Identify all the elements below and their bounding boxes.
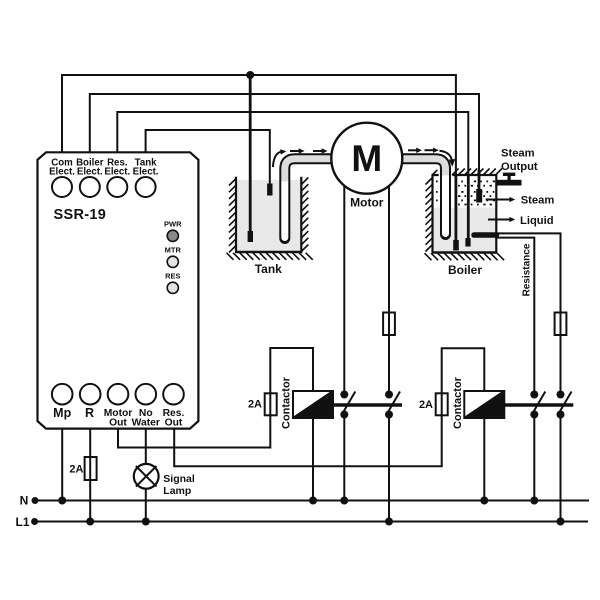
boiler bottom hatching [425, 253, 505, 260]
svg-text:Liquid: Liquid [520, 215, 554, 227]
svg-text:Steam: Steam [521, 194, 555, 206]
electrode tip boiler steam [476, 189, 482, 203]
contactor K2 actuator bar [504, 403, 573, 407]
contactor K1 coil [293, 391, 333, 418]
liquid pointer arrow [488, 219, 510, 221]
wire boiler steam electrode (thick) [478, 170, 481, 190]
resistance lead upper [497, 233, 561, 394]
flow arrow 4 [425, 149, 435, 151]
terminal Res. Out [163, 384, 184, 405]
terminal Boiler Elect. [80, 177, 100, 197]
wire Res. Out to contactor K2 coil fuse [174, 348, 484, 466]
fuse F2 2A (K1 coil) [265, 393, 277, 415]
boiler bottom [432, 251, 498, 254]
fuse F3 (motor phase B) [383, 313, 395, 336]
svg-text:SSR-19: SSR-19 [54, 207, 107, 223]
wire boiler res electrode (thick) [467, 176, 470, 238]
svg-text:Steam: Steam [501, 148, 535, 160]
N rail [32, 500, 589, 502]
wire R to L1 through fuse [89, 428, 91, 522]
tank right wall [300, 177, 302, 252]
tank liquid fill [237, 180, 301, 252]
wire Mp to N [61, 428, 63, 501]
contactor K2 coil return to N [483, 418, 485, 501]
tank right wall hatching [301, 178, 308, 252]
pipe bore inside tank [281, 181, 288, 238]
svg-text:Signal: Signal [163, 473, 195, 485]
boiler left wall hatching [426, 178, 433, 252]
junction dots on L1 [86, 518, 94, 526]
wire motor phase A (to contactor1 contact) [343, 184, 345, 395]
tank bottom hatching [227, 253, 313, 260]
svg-text:Contactor: Contactor [281, 376, 293, 429]
svg-text:Motor: Motor [350, 196, 384, 210]
junction dots on N [58, 497, 66, 505]
svg-text:Elect.: Elect. [133, 167, 159, 178]
svg-text:Out: Out [165, 418, 183, 429]
wire Motor Out to contactor K1 coil fuse [118, 348, 313, 448]
contact K1b [385, 391, 400, 419]
flow arrow curved at boiler elbow [440, 151, 452, 160]
boiler left wall [431, 175, 433, 253]
wire com electrode net (top wire 1) [62, 75, 456, 241]
wire tank common electrode drop [249, 75, 252, 232]
boiler liquid fill [434, 208, 497, 253]
svg-text:R: R [85, 406, 94, 420]
contactor K1 coil return to N [312, 418, 314, 501]
contact K2a [530, 391, 545, 419]
svg-text:MTR: MTR [165, 246, 182, 255]
tank left wall hatching [229, 179, 236, 253]
boiler right wall [495, 175, 497, 253]
tank left wall [235, 177, 237, 252]
wire contact K1b to L1 [388, 415, 390, 522]
contactor K2 coil [464, 391, 504, 418]
pipe bore inside boiler [442, 175, 449, 234]
flow arrow 3 [408, 149, 417, 151]
L1 rail [32, 521, 588, 523]
tank bottom [235, 251, 302, 254]
terminal No Water [136, 384, 157, 405]
svg-text:Output: Output [501, 161, 538, 173]
svg-text:Elect.: Elect. [77, 167, 103, 178]
wire No Water to signal lamp to L1 [145, 428, 147, 522]
motor circle M1 [331, 123, 402, 194]
svg-text:Boiler: Boiler [448, 263, 482, 277]
steam output valve pipe [497, 180, 522, 186]
svg-text:Elect.: Elect. [49, 167, 75, 178]
electrode tip boiler res [465, 238, 470, 247]
SSR-19 controller box U1 [38, 152, 199, 428]
flow arrow curved at tank elbow [273, 152, 281, 167]
svg-text:N: N [20, 494, 29, 508]
svg-text:Elect.: Elect. [104, 167, 130, 178]
steam pointer arrow [486, 199, 510, 201]
contact K1a [340, 391, 355, 419]
wire boiler common electrode (thick) [454, 176, 457, 241]
wire contact K2a to N [533, 415, 535, 501]
svg-text:Mp: Mp [53, 406, 71, 420]
svg-text:Contactor: Contactor [452, 376, 464, 429]
flow arrow 1 [290, 150, 300, 152]
svg-text:Lamp: Lamp [163, 485, 191, 497]
electrode tip boiler common [453, 240, 459, 251]
svg-text:RES: RES [165, 272, 180, 281]
steam output valve handle [503, 173, 515, 176]
flow arrow 2 [313, 150, 323, 152]
wire contact K2b to L1 [560, 415, 562, 522]
resistance heating element bar [474, 232, 497, 238]
wire res elect net (top wire 3) [117, 112, 468, 238]
pipe casing (tank to motor to boiler) [285, 159, 446, 239]
contact K2b [557, 391, 572, 419]
svg-text:Tank: Tank [255, 262, 282, 276]
electrode tip tank common [248, 231, 253, 242]
boiler top edge (gap at pipe) [432, 174, 498, 176]
wire contact K1a to N [343, 415, 345, 501]
contactor K1 actuator bar [333, 403, 402, 407]
fuse F4 2A (K2 coil) [436, 393, 448, 415]
resistance lead lower [497, 238, 535, 395]
terminal Res. Elect. [107, 177, 127, 197]
wire motor phase B (to fuse and contact) [388, 184, 390, 395]
svg-text:Resistance: Resistance [521, 243, 532, 296]
svg-text:L1: L1 [15, 515, 29, 529]
steam output valve stem [508, 175, 511, 181]
fuse F5 (resistance line) [555, 313, 567, 336]
svg-text:PWR: PWR [164, 220, 182, 229]
fuse F1 2A (R line) [85, 457, 97, 480]
wire boiler elect net (top wire 2) [90, 94, 479, 190]
terminal Tank Elect. [136, 177, 156, 197]
electrode tip tank level [267, 184, 272, 196]
wire tank elect net (top wire 4) [146, 130, 270, 184]
pipe bore above vessels (gray) [285, 159, 446, 182]
terminal R [80, 384, 101, 405]
boiler top hatching [433, 169, 502, 176]
terminal Com Elect. [52, 177, 72, 197]
svg-text:M: M [351, 138, 382, 179]
svg-text:2A: 2A [248, 399, 262, 411]
signal lamp LP1 [134, 464, 159, 489]
svg-text:Out: Out [109, 418, 127, 429]
boiler steam dots [436, 181, 495, 206]
terminal Mp [52, 384, 73, 405]
terminal Motor Out [108, 384, 129, 405]
node junction dot on wire 1 [246, 71, 254, 79]
svg-text:2A: 2A [69, 464, 83, 476]
svg-text:2A: 2A [419, 399, 433, 411]
svg-text:Water: Water [132, 418, 160, 429]
